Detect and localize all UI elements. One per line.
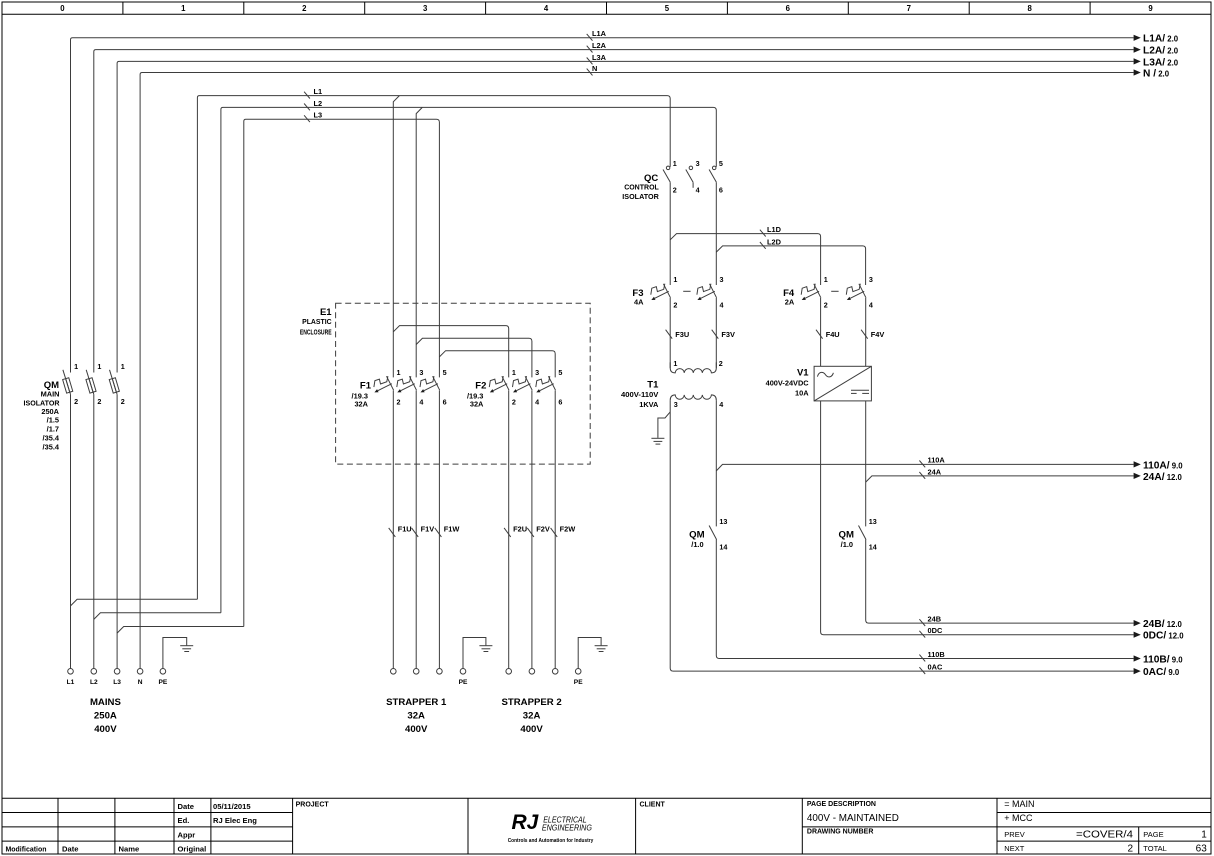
svg-text:14: 14: [869, 543, 877, 552]
svg-text:4: 4: [719, 400, 723, 409]
enclosure E1 (dashed): [336, 303, 591, 464]
fuse-switch QM pole 2: [86, 370, 96, 395]
svg-text:QM: QM: [689, 529, 704, 540]
wire tick L2: [304, 104, 310, 111]
svg-text:1: 1: [824, 275, 828, 284]
net 110B: [716, 540, 1133, 659]
terminal N (mains): [137, 669, 143, 675]
svg-text:5: 5: [443, 368, 447, 377]
svg-text:F4V: F4V: [871, 330, 885, 339]
svg-text:3: 3: [535, 368, 539, 377]
terminal strapper 2 pin 1: [506, 669, 512, 675]
svg-text:PE: PE: [459, 679, 468, 686]
svg-text:400V - MAINTAINED: 400V - MAINTAINED: [807, 813, 899, 824]
breaker F1 pole 1: [374, 376, 394, 392]
svg-text:24A: 24A: [928, 467, 942, 476]
svg-text:32A: 32A: [354, 400, 368, 409]
svg-text:L3A/ 2.0: L3A/ 2.0: [1143, 57, 1179, 68]
ground T1: [651, 438, 664, 444]
branch to F2 pole 2: [416, 338, 532, 377]
terminal strapper 2 PE: [575, 669, 581, 675]
wire tick F4V: [861, 330, 868, 339]
svg-text:6: 6: [443, 398, 447, 407]
svg-text:6: 6: [719, 186, 723, 195]
svg-text:STRAPPER 1: STRAPPER 1: [386, 697, 447, 708]
arrow 110A: [1134, 461, 1141, 467]
svg-text:0DC: 0DC: [928, 626, 943, 635]
svg-text:TOTAL: TOTAL: [1143, 844, 1166, 853]
svg-text:2: 2: [719, 359, 723, 368]
svg-text:= MAIN: = MAIN: [1004, 799, 1034, 809]
svg-text:+ MCC: + MCC: [1004, 813, 1033, 823]
svg-text:NEXT: NEXT: [1004, 844, 1024, 853]
svg-text:5: 5: [665, 4, 670, 13]
arrow L2A: [1134, 47, 1141, 53]
svg-text:5: 5: [558, 368, 562, 377]
svg-text:F4U: F4U: [826, 330, 840, 339]
svg-text:1: 1: [121, 362, 125, 371]
svg-text:13: 13: [719, 517, 727, 526]
net 0DC wire: [821, 401, 1134, 635]
svg-text:N: N: [138, 679, 143, 686]
svg-text:L2: L2: [90, 679, 98, 686]
branch L1 to F1 pole 1: [393, 96, 399, 378]
wire tick L2A: [587, 46, 593, 53]
svg-text:1: 1: [397, 368, 401, 377]
svg-text:4: 4: [869, 300, 873, 309]
svg-text:L2A: L2A: [592, 41, 607, 50]
terminal L2 (mains): [91, 669, 97, 675]
wire F3U: [669, 298, 671, 368]
svg-text:32A: 32A: [407, 711, 425, 722]
label V1: [766, 368, 810, 398]
arrow N: [1134, 69, 1141, 75]
svg-text:Date: Date: [62, 845, 78, 854]
svg-text:/1.0: /1.0: [841, 540, 853, 549]
isolator QC pole 1: [663, 166, 670, 182]
svg-text:2: 2: [824, 300, 828, 309]
svg-text:PREV: PREV: [1004, 830, 1024, 839]
wire T1 pin 4 down: [715, 400, 717, 526]
F3 mechanical link: [683, 290, 690, 292]
svg-text:0AC/ 9.0: 0AC/ 9.0: [1143, 667, 1180, 678]
svg-text:400V-110V: 400V-110V: [621, 390, 658, 399]
svg-text:5: 5: [719, 159, 723, 168]
tap L1 below QM: [71, 599, 198, 606]
terminal strapper 2 pin 3: [552, 669, 558, 675]
label F1: [352, 381, 372, 409]
QC pole 2 stub: [692, 182, 694, 188]
svg-text:1: 1: [673, 359, 677, 368]
branch L2 to F1 pole 2: [416, 107, 422, 377]
wire PE strapper 1: [463, 638, 486, 669]
label STRAPPER 1 block: [386, 697, 447, 735]
svg-text:2: 2: [74, 397, 78, 406]
svg-text:24A/ 12.0: 24A/ 12.0: [1143, 472, 1183, 483]
svg-text:6: 6: [786, 4, 791, 13]
svg-text:24B: 24B: [928, 615, 942, 624]
svg-text:F2U: F2U: [513, 525, 527, 534]
svg-text:4: 4: [720, 300, 724, 309]
svg-text:110B/ 9.0: 110B/ 9.0: [1143, 654, 1183, 665]
svg-text:L3: L3: [314, 111, 323, 120]
svg-text:14: 14: [719, 543, 727, 552]
terminal strapper 1 pin 2: [413, 669, 419, 675]
wire F3V: [715, 298, 717, 368]
terminal L1 (mains): [68, 669, 74, 675]
svg-text:4: 4: [696, 186, 700, 195]
wire V1 24V down: [865, 401, 867, 527]
svg-text:3: 3: [720, 275, 724, 284]
svg-text:110A: 110A: [928, 456, 946, 465]
ground tap T1 pin 3: [658, 412, 670, 438]
arrow 0DC: [1134, 632, 1141, 638]
svg-text:13: 13: [869, 517, 877, 526]
wire tick F1W: [435, 528, 442, 537]
breaker F4 pole 2: [846, 284, 866, 300]
svg-text:3: 3: [674, 400, 678, 409]
svg-text:400V: 400V: [405, 724, 428, 735]
wire tick L1A: [587, 34, 593, 41]
svg-text:PE: PE: [159, 679, 168, 686]
wire tick L1D: [760, 230, 766, 237]
net L2 wire: [221, 107, 716, 612]
svg-text:24B/ 12.0: 24B/ 12.0: [1143, 619, 1183, 630]
svg-text:/1.7: /1.7: [47, 425, 59, 434]
net N wire: [140, 73, 1134, 669]
svg-text:L2A/ 2.0: L2A/ 2.0: [1143, 46, 1179, 57]
label QM aux 2: [839, 529, 854, 549]
transformer T1 secondary winding: [670, 395, 716, 401]
svg-text:1: 1: [673, 275, 677, 284]
net L2D: [716, 246, 865, 285]
svg-text:Original: Original: [178, 845, 207, 854]
svg-text:63: 63: [1196, 843, 1208, 854]
svg-text:MAIN: MAIN: [41, 390, 60, 399]
label T1: [621, 380, 659, 409]
svg-text:1: 1: [512, 368, 516, 377]
svg-text:7: 7: [907, 4, 911, 13]
terminal strapper 2 pin 2: [529, 669, 535, 675]
svg-text:Date: Date: [178, 802, 194, 811]
breaker F1 pole 2: [397, 376, 417, 392]
breaker F3 pole 2: [697, 284, 717, 300]
net 0AC wire: [670, 400, 1133, 671]
label QM main isolator: [24, 380, 61, 451]
tap L2 below QM: [94, 613, 221, 620]
svg-text:N / 2.0: N / 2.0: [1143, 68, 1170, 79]
svg-text:0: 0: [60, 4, 65, 13]
breaker F4 pole 1: [801, 284, 821, 300]
svg-text:Ed.: Ed.: [178, 816, 190, 825]
svg-text:PROJECT: PROJECT: [296, 802, 330, 809]
label F4: [783, 288, 795, 307]
svg-text:L2: L2: [314, 99, 323, 108]
svg-text:0AC: 0AC: [928, 663, 943, 672]
wire tick F1U: [389, 528, 396, 537]
wire F1W: [438, 390, 440, 668]
wire L2 to terminal: [93, 394, 95, 668]
svg-text:3: 3: [419, 368, 423, 377]
svg-text:110A/ 9.0: 110A/ 9.0: [1143, 460, 1183, 471]
contact QM aux 13-14 (24V): [859, 526, 867, 540]
svg-text:L1A: L1A: [592, 29, 607, 38]
net L1D: [670, 234, 820, 285]
svg-text:Appr: Appr: [178, 830, 196, 839]
terminal strapper 1 pin 1: [391, 669, 397, 675]
svg-text:F2: F2: [475, 381, 486, 392]
svg-text:1: 1: [97, 362, 101, 371]
svg-text:T1: T1: [647, 380, 659, 391]
svg-text:1: 1: [673, 159, 677, 168]
svg-text:RJ Elec Eng: RJ Elec Eng: [213, 816, 257, 825]
label MAINS block: [90, 697, 122, 735]
svg-text:N: N: [592, 64, 597, 73]
label F3: [632, 288, 644, 307]
svg-text:L3: L3: [113, 679, 121, 686]
svg-text:V1: V1: [797, 368, 809, 379]
svg-text:/35.4: /35.4: [43, 434, 60, 443]
wire PE strapper 2: [578, 638, 601, 669]
svg-text:4: 4: [535, 398, 539, 407]
svg-text:3: 3: [696, 159, 700, 168]
svg-text:110B: 110B: [928, 650, 945, 659]
svg-text:250A: 250A: [94, 711, 117, 722]
svg-text:4: 4: [544, 4, 549, 13]
breaker F1 pole 3: [420, 376, 440, 392]
wire QC pole3 to F3 pole2: [715, 182, 717, 285]
svg-text:/1.0: /1.0: [691, 540, 703, 549]
wire tick L3: [304, 115, 310, 122]
wire tick F4U: [816, 330, 823, 339]
net L2A wire: [94, 50, 1134, 373]
svg-text:ENGINEERING: ENGINEERING: [542, 824, 592, 833]
wire tick F1V: [412, 528, 419, 537]
svg-text:Name: Name: [119, 845, 140, 854]
arrow 110B: [1134, 655, 1141, 661]
ground mains PE: [180, 646, 193, 652]
svg-text:1KVA: 1KVA: [639, 400, 659, 409]
svg-text:RJ: RJ: [512, 811, 540, 834]
F4 mechanical link: [831, 290, 838, 292]
label QC control isolator: [622, 173, 659, 201]
branch to F2 pole 1: [393, 326, 508, 378]
net L3A wire: [117, 61, 1134, 372]
svg-text:F2V: F2V: [536, 525, 550, 534]
wire tick L1: [304, 92, 310, 99]
svg-text:F1W: F1W: [444, 525, 460, 534]
net L1 wire: [197, 96, 670, 600]
wire F2U: [508, 390, 510, 668]
svg-text:1: 1: [74, 362, 78, 371]
wire F1U: [392, 390, 394, 668]
arrow 24B: [1134, 620, 1141, 626]
wire tick 110A: [919, 461, 925, 468]
svg-text:PAGE: PAGE: [1143, 830, 1163, 839]
wire tick 0DC: [919, 631, 925, 638]
isolator QC pole 2: [686, 166, 693, 182]
contact QM aux 13-14 (110V): [709, 526, 717, 540]
tap L3 below QM: [117, 627, 244, 634]
svg-text:PAGE DESCRIPTION: PAGE DESCRIPTION: [807, 801, 876, 808]
transformer T1 primary winding: [670, 362, 716, 373]
svg-text:4: 4: [419, 398, 423, 407]
svg-text:4A: 4A: [634, 298, 644, 307]
net 24A: [866, 476, 1134, 482]
svg-text:F2W: F2W: [560, 525, 576, 534]
arrow 24A: [1134, 473, 1141, 479]
svg-text:F3U: F3U: [675, 330, 689, 339]
wire tick F2W: [551, 528, 558, 537]
svg-text:32A: 32A: [523, 711, 541, 722]
net L1A wire: [71, 38, 1134, 373]
svg-text:L1D: L1D: [767, 225, 782, 234]
wire L1 to terminal: [70, 394, 72, 668]
label QM aux 1: [689, 529, 704, 549]
svg-text:L1: L1: [314, 87, 323, 96]
wire tick F2U: [504, 528, 511, 537]
net L3 wire: [244, 119, 440, 626]
svg-text:F1U: F1U: [398, 525, 412, 534]
svg-text:8: 8: [1027, 4, 1032, 13]
wire tick 110B: [919, 655, 925, 662]
svg-text:400V: 400V: [94, 724, 117, 735]
svg-text:2: 2: [1127, 843, 1133, 854]
terminal strapper 1 PE: [460, 669, 466, 675]
wire tick L3A: [587, 58, 593, 65]
terminal L3 (mains): [114, 669, 120, 675]
svg-text:CLIENT: CLIENT: [640, 802, 666, 809]
svg-text:L3A: L3A: [592, 53, 607, 62]
breaker F2 pole 1: [489, 376, 509, 392]
fuse-switch QM pole 3: [109, 370, 119, 395]
isolator QC pole 3: [709, 166, 716, 182]
svg-text:400V: 400V: [520, 724, 543, 735]
wire QC pole1 to F3 pole1: [669, 182, 671, 285]
wire tick F2V: [527, 528, 534, 537]
svg-text:2: 2: [512, 398, 516, 407]
wire tick L2D: [760, 242, 766, 249]
wire tick 0AC: [919, 667, 925, 674]
svg-text:STRAPPER 2: STRAPPER 2: [501, 697, 561, 708]
wire F2V: [531, 390, 533, 668]
svg-text:/35.4: /35.4: [43, 443, 60, 452]
terminal PE (mains): [160, 669, 166, 675]
svg-text:PE: PE: [574, 679, 583, 686]
label STRAPPER 2 block: [501, 697, 561, 735]
svg-text:1: 1: [1201, 829, 1207, 840]
svg-text:F1: F1: [360, 381, 372, 392]
ground strapper 2 PE: [595, 646, 608, 652]
svg-text:2A: 2A: [785, 298, 795, 307]
svg-text:Modification: Modification: [6, 845, 47, 854]
svg-text:=COVER/4: =COVER/4: [1076, 829, 1133, 840]
wire tick 24B: [919, 619, 925, 626]
svg-text:0DC/ 12.0: 0DC/ 12.0: [1143, 631, 1184, 642]
svg-text:L1A/ 2.0: L1A/ 2.0: [1143, 34, 1179, 45]
svg-text:PLASTIC: PLASTIC: [302, 317, 332, 326]
svg-text:/1.5: /1.5: [47, 416, 59, 425]
label E1 plastic enclosure: [300, 307, 332, 337]
ground strapper 1 PE: [479, 646, 492, 652]
wire F2W: [554, 390, 556, 668]
svg-text:9: 9: [1148, 4, 1153, 13]
branch to F2 pole 3: [439, 351, 555, 378]
wire tick N: [587, 69, 593, 76]
svg-text:L2D: L2D: [767, 237, 782, 246]
breaker F2 pole 3: [536, 376, 556, 392]
svg-text:400V-24VDC: 400V-24VDC: [766, 378, 810, 387]
svg-text:10A: 10A: [795, 388, 809, 397]
svg-text:MAINS: MAINS: [90, 697, 122, 708]
svg-text:05/11/2015: 05/11/2015: [213, 802, 251, 811]
wire PE mains: [163, 638, 187, 669]
svg-text:2: 2: [302, 4, 307, 13]
svg-text:F1V: F1V: [421, 525, 435, 534]
fuse-switch QM pole 1: [63, 370, 73, 395]
svg-text:Controls and Automation for In: Controls and Automation for Industry: [508, 838, 594, 844]
svg-text:32A: 32A: [470, 400, 484, 409]
svg-text:ENCLOSURE: ENCLOSURE: [300, 328, 332, 337]
svg-text:DRAWING NUMBER: DRAWING NUMBER: [807, 829, 874, 836]
wire tick 24A: [919, 472, 925, 479]
arrow L3A: [1134, 58, 1141, 64]
wire F4V: [865, 298, 867, 366]
power supply V1: [814, 366, 871, 401]
svg-text:2: 2: [673, 186, 677, 195]
net 24B: [866, 540, 1134, 624]
svg-text:3: 3: [869, 275, 873, 284]
breaker F2 pole 2: [513, 376, 533, 392]
net 110A: [716, 464, 1133, 471]
breaker F3 pole 1: [651, 284, 671, 300]
wire F4U: [820, 298, 822, 366]
arrow 0AC: [1134, 668, 1141, 674]
svg-text:2: 2: [97, 397, 101, 406]
terminal strapper 1 pin 3: [437, 669, 443, 675]
svg-text:QM: QM: [839, 529, 854, 540]
label F2: [467, 381, 486, 409]
wire tick F3U: [666, 330, 673, 339]
svg-text:F3V: F3V: [721, 330, 735, 339]
svg-text:2: 2: [121, 397, 125, 406]
svg-text:2: 2: [673, 300, 677, 309]
svg-text:ISOLATOR: ISOLATOR: [622, 192, 659, 201]
svg-text:CONTROL: CONTROL: [624, 182, 659, 191]
wire tick F3V: [712, 330, 719, 339]
wire L3 to terminal: [116, 394, 118, 668]
svg-text:2: 2: [397, 398, 401, 407]
svg-text:1: 1: [181, 4, 186, 13]
arrow L1A: [1134, 35, 1141, 41]
svg-text:6: 6: [558, 398, 562, 407]
svg-text:L1: L1: [67, 679, 75, 686]
wire F1V: [415, 390, 417, 668]
svg-text:3: 3: [423, 4, 428, 13]
